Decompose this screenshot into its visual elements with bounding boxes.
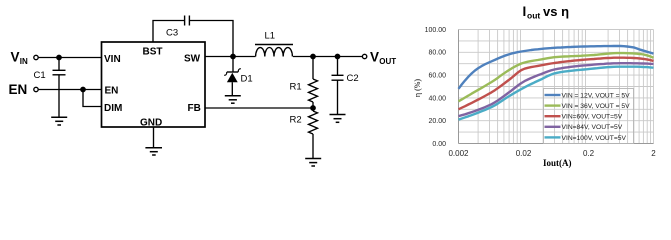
wire C1 bottom lead to ground (58, 75, 60, 117)
svg-text:40.00: 40.00 (428, 95, 446, 102)
resistor R1 (312, 57, 314, 80)
svg-text:VIN = 12V, VOUT = 5V: VIN = 12V, VOUT = 5V (562, 92, 631, 99)
legend entry VIN = 36V (545, 104, 561, 106)
svg-text:EN: EN (105, 85, 119, 96)
legend entry VIN = 12V (545, 94, 561, 96)
chart axes (459, 30, 654, 144)
capacitor C3 (184, 16, 186, 26)
legend entry VIN=100V (545, 136, 561, 138)
resistor R2 (312, 108, 314, 111)
svg-text:η (%): η (%) (413, 79, 422, 98)
wire VIN to IC (39, 57, 102, 59)
svg-text:2: 2 (651, 149, 656, 158)
svg-text:SW: SW (184, 53, 201, 64)
capacitor C1 (53, 69, 66, 71)
chart gridlines (459, 30, 654, 144)
node VIN terminal (34, 55, 38, 59)
capacitor C2 (337, 57, 339, 76)
svg-text:R1: R1 (290, 82, 302, 93)
wire FB to divider (205, 107, 313, 109)
node EN terminal (34, 87, 38, 91)
node VOUT/C2 junction (335, 54, 339, 58)
IC U1 (regulator) box (102, 42, 206, 127)
svg-text:C3: C3 (166, 28, 178, 39)
x axis tick labels (448, 149, 656, 158)
svg-text:D1: D1 (241, 74, 253, 85)
legend entry VIN=60V (545, 115, 561, 117)
node VIN/C1 junction (57, 55, 61, 59)
svg-text:V: V (11, 50, 20, 65)
ground (R2) (305, 158, 321, 160)
wire SW rail (205, 56, 256, 58)
svg-text:IN: IN (20, 57, 28, 66)
node VOUT terminal (362, 54, 366, 58)
svg-text:0.02: 0.02 (516, 149, 532, 158)
svg-text:R2: R2 (290, 115, 302, 126)
node VOUT label (370, 50, 396, 67)
svg-text:0.2: 0.2 (583, 149, 595, 158)
node VOUT/R1 junction (311, 54, 315, 58)
y axis tick labels (425, 27, 447, 148)
svg-text:vs η: vs η (543, 4, 569, 19)
svg-text:I: I (523, 4, 527, 19)
svg-text:VIN = 36V, VOUT = 5V: VIN = 36V, VOUT = 5V (562, 103, 631, 110)
node SW/C3/D1 junction (231, 54, 235, 58)
wire L1 to VOUT terminal (293, 56, 362, 58)
series VIN=60V curve (459, 58, 654, 110)
node FB/R1/R2 junction (311, 106, 315, 110)
legend entry VIN=84V (545, 126, 561, 128)
svg-text:EN: EN (9, 82, 28, 97)
node EN/DIM junction (81, 87, 85, 91)
series VIN=84V curve (459, 63, 654, 116)
svg-text:BST: BST (143, 47, 163, 58)
ground (C1) (51, 116, 67, 118)
series VIN=36V curve (459, 53, 654, 101)
svg-text:V: V (370, 50, 379, 65)
series VIN=100V curve (459, 67, 654, 120)
svg-text:DIM: DIM (104, 103, 122, 114)
svg-text:Iout(A): Iout(A) (543, 158, 572, 168)
svg-text:60.00: 60.00 (428, 73, 446, 80)
svg-text:0.00: 0.00 (432, 141, 446, 148)
ground (D1) (225, 95, 241, 97)
svg-text:20.00: 20.00 (428, 118, 446, 125)
wire D1 anode to ground (231, 82, 233, 95)
svg-text:C2: C2 (347, 73, 359, 84)
svg-text:OUT: OUT (379, 57, 396, 66)
svg-text:L1: L1 (265, 31, 276, 42)
wire EN junction to DIM pin (83, 90, 102, 107)
wire D1 cathode lead (232, 57, 234, 73)
svg-text:VIN: VIN (104, 54, 121, 65)
svg-text:VIN=60V, VOUT=5V: VIN=60V, VOUT=5V (562, 114, 623, 121)
svg-text:80.00: 80.00 (428, 50, 446, 57)
series VIN=12V curve (459, 46, 654, 89)
diode D1 (schottky) (227, 71, 238, 73)
svg-text:GND: GND (140, 118, 162, 129)
svg-text:FB: FB (188, 103, 201, 114)
svg-text:out: out (527, 11, 540, 21)
ground (GND pin) (145, 147, 162, 149)
svg-text:C1: C1 (34, 70, 46, 81)
svg-text:VIN=84V, VOUT=5V: VIN=84V, VOUT=5V (562, 124, 623, 131)
node VIN label (11, 50, 29, 67)
wire EN to IC (39, 89, 102, 91)
wire GND pin to ground (153, 127, 155, 147)
inductor L1 (255, 44, 293, 46)
ground (C2) (330, 114, 346, 116)
wire BST to C3 (153, 21, 184, 43)
wire C1 top lead (58, 58, 60, 71)
wire C3 to SW node (189, 21, 233, 57)
svg-text:VIN=100V, VOUT=5V: VIN=100V, VOUT=5V (562, 135, 627, 142)
chart title (523, 4, 570, 21)
legend box (544, 89, 634, 144)
svg-text:0.002: 0.002 (448, 149, 469, 158)
svg-text:100.00: 100.00 (425, 27, 447, 34)
